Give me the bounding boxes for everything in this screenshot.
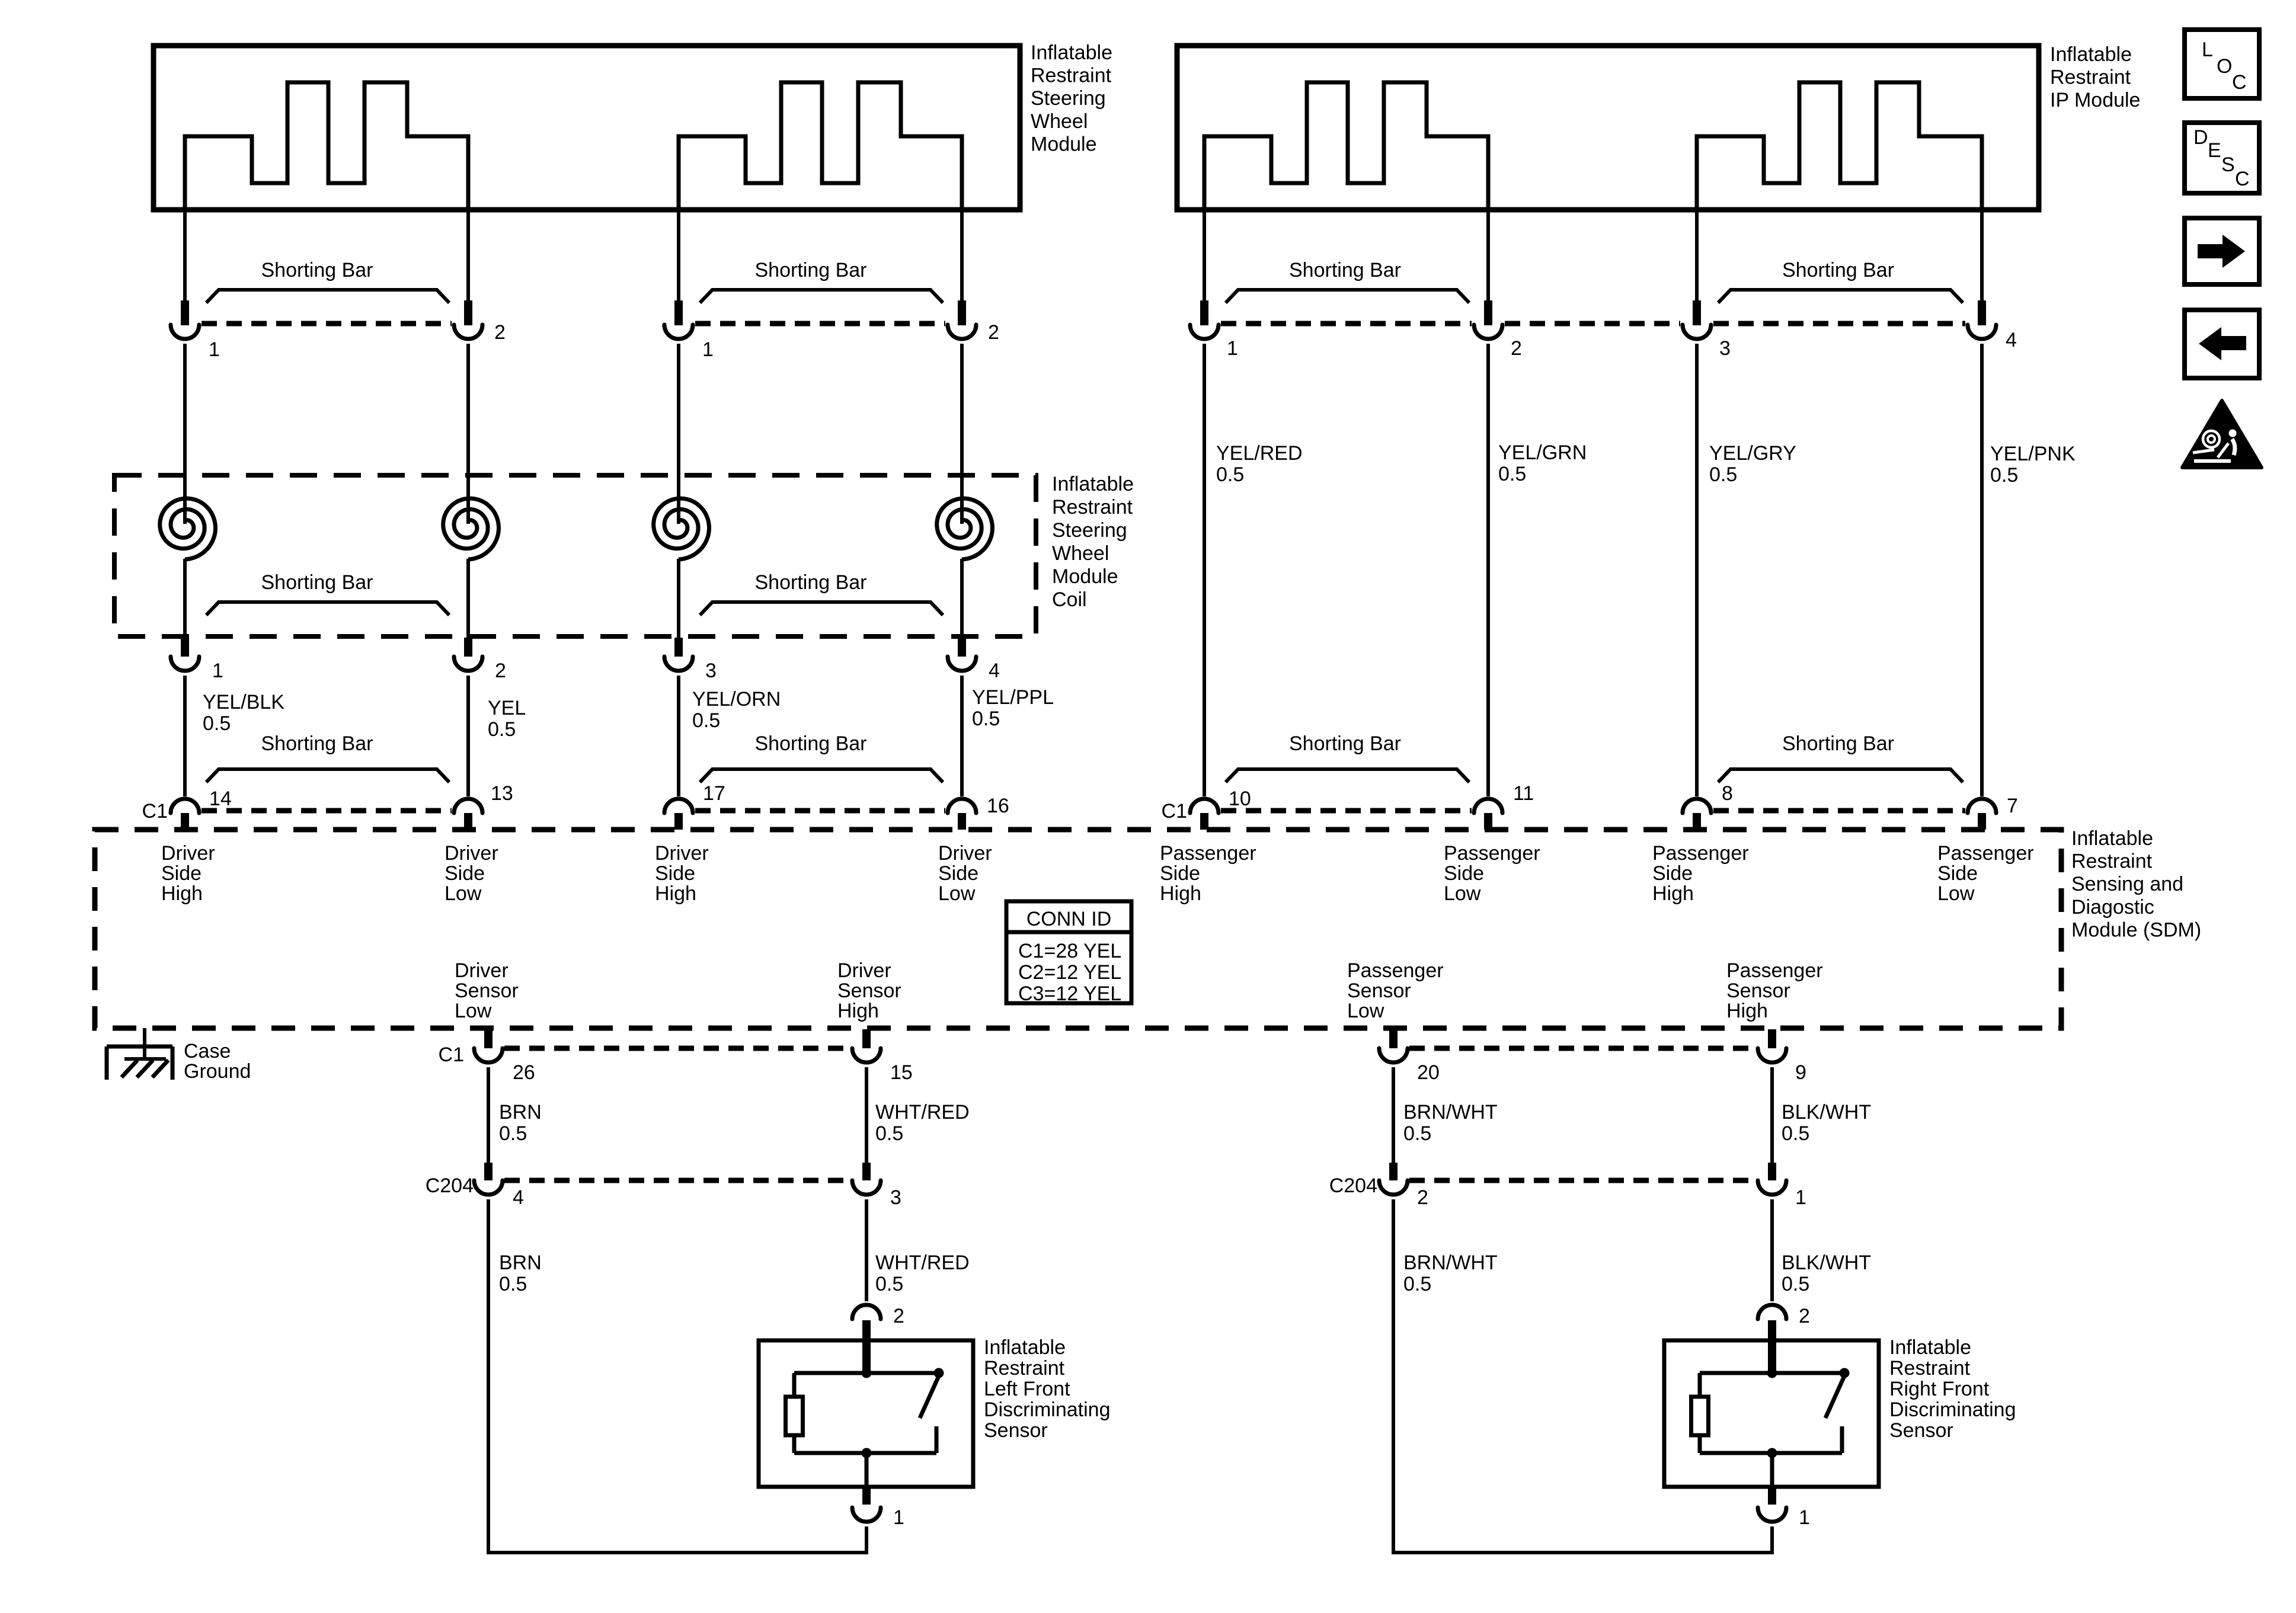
svg-text:BRN/WHT: BRN/WHT — [1403, 1101, 1498, 1124]
svg-text:10: 10 — [1229, 788, 1251, 810]
svg-text:Driver: Driver — [445, 842, 498, 865]
svg-text:2: 2 — [495, 660, 506, 682]
svg-text:1: 1 — [893, 1506, 904, 1529]
svg-text:Restraint: Restraint — [1031, 65, 1112, 87]
svg-text:8: 8 — [1722, 782, 1733, 805]
svg-text:Inflatable: Inflatable — [984, 1336, 1066, 1359]
svg-text:20: 20 — [1417, 1061, 1440, 1084]
svg-text:Shorting Bar: Shorting Bar — [261, 259, 373, 281]
svg-text:3: 3 — [705, 660, 717, 682]
svg-text:0.5: 0.5 — [1782, 1273, 1809, 1295]
svg-text:Inflatable: Inflatable — [1052, 473, 1134, 495]
svg-text:Sensor: Sensor — [984, 1419, 1048, 1442]
svg-text:2: 2 — [494, 321, 506, 344]
svg-text:Passenger: Passenger — [1937, 842, 2034, 865]
svg-text:Right Front: Right Front — [1889, 1378, 1990, 1400]
svg-text:2: 2 — [988, 321, 999, 344]
svg-text:Driver: Driver — [161, 842, 215, 865]
svg-text:0.5: 0.5 — [1403, 1122, 1431, 1145]
svg-text:0.5: 0.5 — [875, 1122, 903, 1145]
svg-text:1: 1 — [1799, 1506, 1810, 1529]
svg-text:YEL/GRY: YEL/GRY — [1709, 442, 1796, 465]
svg-text:C: C — [2232, 71, 2247, 94]
svg-text:15: 15 — [890, 1061, 913, 1084]
svg-text:Low: Low — [1444, 882, 1481, 905]
svg-text:Coil: Coil — [1052, 588, 1087, 611]
svg-text:Left Front: Left Front — [984, 1378, 1070, 1400]
svg-text:Steering: Steering — [1052, 519, 1127, 542]
svg-text:Ground: Ground — [184, 1060, 251, 1083]
svg-text:17: 17 — [703, 782, 725, 805]
svg-text:WHT/RED: WHT/RED — [875, 1252, 970, 1274]
svg-text:Inflatable: Inflatable — [1889, 1336, 1971, 1359]
svg-text:YEL/PNK: YEL/PNK — [1990, 443, 2076, 465]
svg-text:High: High — [161, 882, 203, 905]
svg-text:Inflatable: Inflatable — [2071, 827, 2153, 850]
svg-text:Restraint: Restraint — [1889, 1357, 1971, 1380]
svg-text:4: 4 — [2006, 329, 2017, 351]
svg-text:0.5: 0.5 — [875, 1273, 903, 1295]
svg-text:0.5: 0.5 — [1498, 463, 1526, 485]
svg-text:Module: Module — [1052, 565, 1118, 588]
svg-text:High: High — [1652, 882, 1694, 905]
svg-text:Restraint: Restraint — [2050, 66, 2131, 89]
svg-text:YEL: YEL — [488, 697, 526, 719]
svg-text:Inflatable: Inflatable — [1031, 41, 1112, 64]
svg-text:C204: C204 — [426, 1174, 474, 1197]
svg-text:Restraint: Restraint — [1052, 496, 1133, 519]
svg-text:Side: Side — [445, 862, 485, 885]
svg-text:Restraint: Restraint — [984, 1357, 1065, 1380]
svg-text:Low: Low — [445, 882, 482, 905]
svg-text:Shorting Bar: Shorting Bar — [1289, 732, 1401, 755]
svg-text:Sensor: Sensor — [1726, 980, 1790, 1002]
svg-text:Passenger: Passenger — [1726, 959, 1823, 982]
svg-text:Low: Low — [938, 882, 976, 905]
svg-text:C1: C1 — [1162, 800, 1187, 822]
svg-text:Driver: Driver — [455, 959, 509, 982]
svg-text:Shorting Bar: Shorting Bar — [261, 732, 373, 755]
svg-text:Side: Side — [1652, 862, 1693, 885]
svg-text:0.5: 0.5 — [499, 1122, 527, 1145]
svg-text:WHT/RED: WHT/RED — [875, 1101, 970, 1124]
svg-text:Sensor: Sensor — [455, 980, 519, 1002]
svg-text:Driver: Driver — [938, 842, 992, 865]
svg-text:Sensor: Sensor — [837, 980, 901, 1002]
svg-text:4: 4 — [989, 660, 1000, 682]
svg-text:C2=12 YEL: C2=12 YEL — [1018, 961, 1121, 984]
svg-text:Sensor: Sensor — [1347, 980, 1411, 1002]
svg-text:Driver: Driver — [837, 959, 891, 982]
svg-text:Module (SDM): Module (SDM) — [2071, 918, 2201, 941]
svg-text:Inflatable: Inflatable — [2050, 43, 2132, 66]
svg-text:0.5: 0.5 — [1709, 463, 1737, 486]
svg-text:Shorting Bar: Shorting Bar — [1289, 259, 1401, 281]
svg-text:Wheel: Wheel — [1052, 542, 1109, 565]
svg-text:9: 9 — [1795, 1061, 1806, 1084]
svg-text:Low: Low — [1347, 1000, 1384, 1022]
svg-text:S: S — [2221, 153, 2235, 176]
svg-text:CONN ID: CONN ID — [1027, 908, 1112, 930]
svg-text:Sensing and: Sensing and — [2071, 873, 2183, 895]
svg-text:Steering: Steering — [1031, 87, 1106, 110]
svg-text:O: O — [2217, 55, 2232, 78]
svg-text:YEL/RED: YEL/RED — [1216, 442, 1303, 465]
svg-text:7: 7 — [2007, 795, 2018, 817]
svg-text:Passenger: Passenger — [1160, 842, 1256, 865]
svg-text:1: 1 — [702, 338, 714, 361]
svg-text:Module: Module — [1031, 133, 1097, 155]
svg-text:Discriminating: Discriminating — [1889, 1398, 2016, 1421]
svg-text:2: 2 — [1799, 1305, 1810, 1327]
svg-text:Shorting Bar: Shorting Bar — [755, 259, 867, 281]
svg-text:BLK/WHT: BLK/WHT — [1782, 1252, 1871, 1274]
svg-text:0.5: 0.5 — [488, 718, 516, 741]
svg-text:Low: Low — [455, 1000, 492, 1022]
svg-text:1: 1 — [1795, 1186, 1806, 1209]
svg-text:C3=12 YEL: C3=12 YEL — [1018, 982, 1121, 1005]
svg-text:L: L — [2202, 39, 2213, 61]
svg-text:0.5: 0.5 — [972, 708, 1000, 730]
svg-text:Sensor: Sensor — [1889, 1419, 1953, 1442]
svg-text:2: 2 — [893, 1305, 904, 1327]
svg-text:Side: Side — [1937, 862, 1978, 885]
svg-text:14: 14 — [209, 788, 232, 810]
svg-text:Side: Side — [655, 862, 695, 885]
svg-text:Side: Side — [938, 862, 978, 885]
svg-text:1: 1 — [1227, 337, 1238, 360]
svg-text:16: 16 — [987, 795, 1009, 817]
svg-text:4: 4 — [513, 1186, 524, 1209]
svg-text:0.5: 0.5 — [499, 1273, 527, 1295]
svg-text:YEL/GRN: YEL/GRN — [1498, 441, 1587, 464]
svg-text:2: 2 — [1511, 337, 1522, 360]
svg-text:Side: Side — [161, 862, 202, 885]
svg-text:High: High — [655, 882, 696, 905]
svg-text:3: 3 — [1719, 337, 1731, 360]
svg-text:YEL/ORN: YEL/ORN — [692, 688, 781, 711]
svg-text:Shorting Bar: Shorting Bar — [1782, 259, 1894, 281]
svg-text:E: E — [2208, 139, 2221, 162]
svg-text:1: 1 — [209, 338, 220, 361]
svg-text:Side: Side — [1444, 862, 1484, 885]
svg-text:1: 1 — [212, 660, 223, 682]
svg-text:Shorting Bar: Shorting Bar — [755, 732, 867, 755]
svg-text:Low: Low — [1937, 882, 1975, 905]
svg-text:Wheel: Wheel — [1031, 110, 1088, 133]
svg-text:0.5: 0.5 — [1782, 1122, 1809, 1145]
svg-text:High: High — [837, 1000, 879, 1022]
svg-text:BRN: BRN — [499, 1101, 542, 1124]
svg-text:Driver: Driver — [655, 842, 709, 865]
svg-text:13: 13 — [491, 782, 513, 805]
svg-text:C204: C204 — [1329, 1174, 1377, 1197]
svg-text:High: High — [1726, 1000, 1768, 1022]
svg-text:0.5: 0.5 — [1990, 464, 2018, 487]
svg-text:Side: Side — [1160, 862, 1200, 885]
svg-text:11: 11 — [1513, 782, 1534, 805]
svg-text:0.5: 0.5 — [692, 709, 720, 732]
svg-text:YEL/PPL: YEL/PPL — [972, 686, 1054, 709]
svg-text:Passenger: Passenger — [1347, 959, 1444, 982]
svg-text:3: 3 — [890, 1186, 901, 1209]
svg-text:BLK/WHT: BLK/WHT — [1782, 1101, 1871, 1124]
svg-text:Shorting Bar: Shorting Bar — [755, 571, 867, 594]
svg-text:C1=28 YEL: C1=28 YEL — [1018, 940, 1121, 962]
svg-text:D: D — [2193, 126, 2208, 149]
svg-text:BRN: BRN — [499, 1252, 542, 1274]
svg-text:C: C — [2235, 168, 2250, 190]
svg-text:Shorting Bar: Shorting Bar — [261, 571, 373, 594]
svg-text:C1: C1 — [142, 800, 168, 822]
svg-text:2: 2 — [1417, 1186, 1428, 1209]
svg-text:High: High — [1160, 882, 1201, 905]
svg-text:0.5: 0.5 — [1216, 463, 1244, 486]
svg-text:0.5: 0.5 — [1403, 1273, 1431, 1295]
svg-text:IP Module: IP Module — [2050, 89, 2140, 111]
svg-text:YEL/BLK: YEL/BLK — [203, 691, 284, 713]
svg-text:Passenger: Passenger — [1652, 842, 1749, 865]
svg-text:Case: Case — [184, 1040, 231, 1062]
svg-text:Diagostic: Diagostic — [2071, 896, 2154, 918]
svg-text:Passenger: Passenger — [1444, 842, 1540, 865]
svg-text:BRN/WHT: BRN/WHT — [1403, 1252, 1498, 1274]
svg-text:Discriminating: Discriminating — [984, 1398, 1111, 1421]
svg-text:0.5: 0.5 — [203, 712, 231, 735]
svg-text:26: 26 — [513, 1061, 535, 1084]
svg-text:Shorting Bar: Shorting Bar — [1782, 732, 1894, 755]
svg-text:C1: C1 — [439, 1044, 464, 1066]
svg-text:Restraint: Restraint — [2071, 850, 2153, 873]
